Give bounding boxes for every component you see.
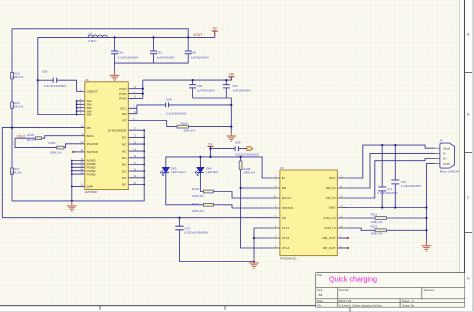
svg-text:C61: C61 <box>118 51 124 55</box>
resistor R107 <box>10 167 22 174</box>
svg-text:2.2uF/10%/50V: 2.2uF/10%/50V <box>166 112 187 116</box>
svg-text:4.7uF/10%/50V: 4.7uF/10%/50V <box>377 191 398 195</box>
wire 5V flag stub <box>210 146 212 157</box>
svg-text:R104: R104 <box>181 121 188 125</box>
svg-text:1uF/10%/50V: 1uF/10%/50V <box>232 88 250 92</box>
svg-text:SS/TRK: SS/TRK <box>87 150 99 154</box>
svg-text:NC: NC <box>122 183 127 187</box>
wire RT row <box>128 121 231 127</box>
svg-text:LM73606: LM73606 <box>85 190 97 194</box>
svg-text:D: D <box>467 277 470 281</box>
inductor L4 <box>88 32 107 44</box>
wire NC stubs <box>128 130 144 184</box>
svg-text:NC: NC <box>122 142 127 146</box>
capacitor C65 boot <box>42 69 67 88</box>
svg-text:0.1uF/10%/50V: 0.1uF/10%/50V <box>118 55 139 59</box>
svg-text:0.47uF/10%/50V: 0.47uF/10%/50V <box>44 84 66 88</box>
svg-text:1uF/10%/50V: 1uF/10%/50V <box>197 88 215 92</box>
svg-text:1uF/10%/50V: 1uF/10%/50V <box>157 55 175 59</box>
wire ILIM_HI R112 <box>346 228 426 230</box>
svg-text:DP_IN: DP_IN <box>326 196 335 200</box>
svg-text:Title: Title <box>317 273 323 277</box>
resistor R110 <box>192 202 213 213</box>
svg-text:PGND: PGND <box>87 172 97 176</box>
svg-text:SW: SW <box>87 113 92 117</box>
wire PVIN bus <box>128 80 143 98</box>
power flag VIN <box>228 73 234 81</box>
svg-text:4.7uF/10%/50V: 4.7uF/10%/50V <box>401 184 422 188</box>
svg-text:PVIN: PVIN <box>119 97 126 101</box>
svg-text:R109: R109 <box>192 187 199 191</box>
wire VCC EN tie <box>128 105 137 114</box>
svg-text:0R,1%: 0R,1% <box>27 138 36 142</box>
wire DM_OUT stub <box>337 237 348 239</box>
capacitor C69 <box>235 141 259 157</box>
svg-text:510K,1%: 510K,1% <box>10 171 22 175</box>
wire DP_OUT stub <box>337 247 348 249</box>
svg-text:CS: CS <box>282 216 286 220</box>
LED D64 <box>195 167 218 176</box>
svg-text:PVIN: PVIN <box>119 87 126 91</box>
wire 5V rail <box>166 157 271 178</box>
title block <box>316 273 465 308</box>
wire FB row <box>2 128 85 218</box>
svg-text:TPS2549-Q1: TPS2549-Q1 <box>280 257 297 261</box>
svg-text:ILIM_LO: ILIM_LO <box>324 216 336 220</box>
svg-text:0.022uF/10%/50V: 0.022uF/10%/50V <box>235 153 259 157</box>
wire C68 row <box>137 104 231 106</box>
wire DM_IN to D- <box>346 153 435 188</box>
wire SW pin stubs <box>77 101 85 115</box>
svg-text:STATUS: STATUS <box>282 206 294 210</box>
svg-text:FB: FB <box>87 126 91 130</box>
svg-text:EN: EN <box>122 112 126 116</box>
wire AGND bus <box>72 161 85 201</box>
svg-text:BIAS: BIAS <box>87 134 94 138</box>
svg-text:D+: D+ <box>443 157 447 161</box>
capacitor C63 <box>185 51 209 60</box>
ground VIN caps <box>227 131 237 141</box>
svg-text:C68: C68 <box>166 98 172 102</box>
wire VIN cap columns <box>193 80 227 98</box>
ground under C61 rail <box>110 63 120 81</box>
capacitor C62 <box>150 51 175 60</box>
wire R108 CTL3 column <box>241 157 272 248</box>
wire C61 stub <box>114 37 116 51</box>
wire C62 stub <box>153 37 155 51</box>
wire D63 column <box>166 157 204 205</box>
svg-text:6.8uH: 6.8uH <box>88 39 96 43</box>
svg-text:DAP: DAP <box>87 185 93 189</box>
svg-text:CTL1: CTL1 <box>282 226 290 230</box>
wire EN tee <box>241 187 272 189</box>
svg-text:DM_OUT: DM_OUT <box>322 236 335 240</box>
svg-text:CTL2: CTL2 <box>282 236 290 240</box>
svg-text:C65: C65 <box>42 69 48 73</box>
wire PGOOD R106 <box>15 138 85 147</box>
svg-text:FAULT: FAULT <box>282 196 292 200</box>
wire OUT to vbus rail <box>346 145 435 178</box>
capacitor C70 <box>391 180 421 188</box>
wire VIN caps gnd rail <box>193 98 232 132</box>
svg-text:VOUT: VOUT <box>193 33 202 37</box>
svg-text:U6: U6 <box>85 78 89 82</box>
svg-text:Number: Number <box>339 288 349 292</box>
svg-text:R106: R106 <box>49 141 56 145</box>
wire ILIM_LO R111 <box>346 217 426 219</box>
svg-text:Micro USB DIP: Micro USB DIP <box>440 169 460 173</box>
svg-text:GND: GND <box>443 162 451 166</box>
svg-text:R110: R110 <box>192 202 199 206</box>
resistor R103 <box>11 101 24 108</box>
svg-text:CBOOT: CBOOT <box>87 90 98 94</box>
wire CTL1 CTL2 gnd <box>254 228 271 262</box>
svg-text:C:\Users\..\Quick charging.Sch: C:\Users\..\Quick charging.SchDoc <box>339 303 383 307</box>
svg-text:VCC: VCC <box>120 107 127 111</box>
svg-text:LED Green: LED Green <box>171 170 186 174</box>
wire left divider column <box>11 29 13 201</box>
svg-text:PGOOD: PGOOD <box>87 142 99 146</box>
ic U9 TPS2549-Q1 <box>273 166 343 261</box>
svg-text:100K,1%: 100K,1% <box>371 232 383 236</box>
wire SW column <box>38 37 77 114</box>
wire R109 to FAULT <box>213 192 271 199</box>
svg-text:NC: NC <box>122 149 127 153</box>
svg-text:Quick charging: Quick charging <box>329 275 377 284</box>
port arrow <box>247 147 253 151</box>
svg-text:A4: A4 <box>319 293 323 297</box>
svg-text:CTL3: CTL3 <box>282 246 290 250</box>
svg-text:R111: R111 <box>371 213 378 217</box>
svg-text:100K,1%: 100K,1% <box>183 129 195 133</box>
svg-text:D-: D- <box>443 152 446 156</box>
resistor R111 <box>371 213 387 224</box>
resistor R106 <box>49 141 65 154</box>
capacitor C66 <box>189 84 215 92</box>
wire inductor row <box>38 36 215 38</box>
svg-text:Drawn By:: Drawn By: <box>402 303 415 307</box>
wire C72 branch <box>180 218 255 262</box>
resistor R104 <box>177 121 195 132</box>
svg-text:R112: R112 <box>371 225 378 229</box>
svg-text:DM_IN: DM_IN <box>326 186 336 190</box>
svg-text:NC: NC <box>122 163 127 167</box>
svg-text:EN: EN <box>282 186 286 190</box>
svg-text:NC: NC <box>122 156 127 160</box>
LED D63 <box>161 167 186 176</box>
svg-text:SYNC/MODE: SYNC/MODE <box>108 128 127 132</box>
svg-text:C62: C62 <box>157 51 163 55</box>
svg-text:U9: U9 <box>280 166 284 170</box>
svg-text:100K,1%: 100K,1% <box>50 150 62 154</box>
resistor R102 <box>11 72 24 79</box>
wire SSTRK stub <box>73 151 85 153</box>
resistor R109 <box>192 187 213 198</box>
svg-text:100K,1%: 100K,1% <box>192 194 204 198</box>
svg-text:Vbus: Vbus <box>443 146 450 150</box>
ground buck agnd <box>67 201 77 211</box>
resistor R112 <box>371 225 387 236</box>
svg-text:R105: R105 <box>27 133 34 137</box>
resistor R105 <box>27 133 42 142</box>
svg-text:PVIN: PVIN <box>119 92 126 96</box>
svg-text:1uF/10%/50V: 1uF/10%/50V <box>191 55 209 59</box>
svg-text:NC: NC <box>122 136 127 140</box>
svg-text:VOUT: VOUT <box>17 134 26 138</box>
wire cap bottom rail top <box>115 54 189 63</box>
svg-text:ILIM_HI: ILIM_HI <box>325 226 336 230</box>
wire BIAS R105 <box>15 136 85 139</box>
wire C65 boot cap right to CBOOT <box>57 80 85 91</box>
junction dots usb <box>199 144 427 263</box>
svg-text:RT: RT <box>122 119 126 123</box>
resistor R108 <box>239 161 255 175</box>
capacitor C61 <box>111 51 138 60</box>
capacitor C67 <box>223 84 251 92</box>
wire C70 column <box>394 145 396 207</box>
connector J4 micro usb <box>435 139 460 174</box>
power flag 5V mid <box>208 142 214 146</box>
wire R110 to STATUS <box>213 205 271 208</box>
svg-text:GND: GND <box>329 206 337 210</box>
svg-text:C: C <box>467 196 470 200</box>
svg-text:VIN: VIN <box>229 73 235 77</box>
wire VIN rail <box>143 78 232 80</box>
junction dots buck <box>11 36 233 218</box>
wire buck gnd rail <box>12 130 144 201</box>
noerc marks <box>72 151 349 249</box>
svg-text:L4: L4 <box>88 32 92 36</box>
wire C71 column <box>381 145 383 207</box>
svg-text:DP_OUT: DP_OUT <box>323 246 336 250</box>
wire usb gnd column <box>426 164 434 244</box>
svg-text:100K,1%: 100K,1% <box>12 105 24 109</box>
capacitor C72 <box>175 226 208 234</box>
wire C65 boot cap left <box>38 79 53 81</box>
ground usb <box>422 241 432 251</box>
svg-text:J4: J4 <box>440 139 443 143</box>
svg-text:C63: C63 <box>191 51 197 55</box>
pin stubs U9 <box>271 178 346 248</box>
wire VOUT top <box>12 29 188 38</box>
svg-text:5V: 5V <box>209 142 213 146</box>
wire C69 row <box>211 148 247 150</box>
svg-text:0.022uF/10%/50V: 0.022uF/10%/50V <box>184 231 208 235</box>
svg-text:OUT: OUT <box>329 176 336 180</box>
svg-text:IN: IN <box>282 176 285 180</box>
svg-text:Revision: Revision <box>424 288 435 292</box>
svg-text:100K,1%: 100K,1% <box>192 209 204 213</box>
svg-text:100K,1%: 100K,1% <box>12 75 24 79</box>
wire sense bottom row <box>2 217 271 219</box>
svg-text:LED Red: LED Red <box>206 170 218 174</box>
ground CTL <box>249 258 259 268</box>
capacitor C68 <box>166 98 187 116</box>
capacitor C71 <box>377 187 398 195</box>
svg-text:NC: NC <box>122 169 127 173</box>
op IC U6 LM73606 <box>80 78 137 194</box>
svg-text:C69: C69 <box>235 141 241 145</box>
wire GND row <box>343 207 426 209</box>
wire C63 stub <box>187 37 189 51</box>
svg-text:File: File <box>317 303 322 307</box>
wire D64 column <box>200 157 203 192</box>
svg-text:Size: Size <box>317 288 323 292</box>
power flag 5V top <box>212 26 218 37</box>
svg-text:NC: NC <box>122 176 127 180</box>
svg-text:100K,1%: 100K,1% <box>371 220 383 224</box>
svg-text:100K,1%: 100K,1% <box>243 171 255 175</box>
wire DP_IN to D+ <box>346 159 435 199</box>
